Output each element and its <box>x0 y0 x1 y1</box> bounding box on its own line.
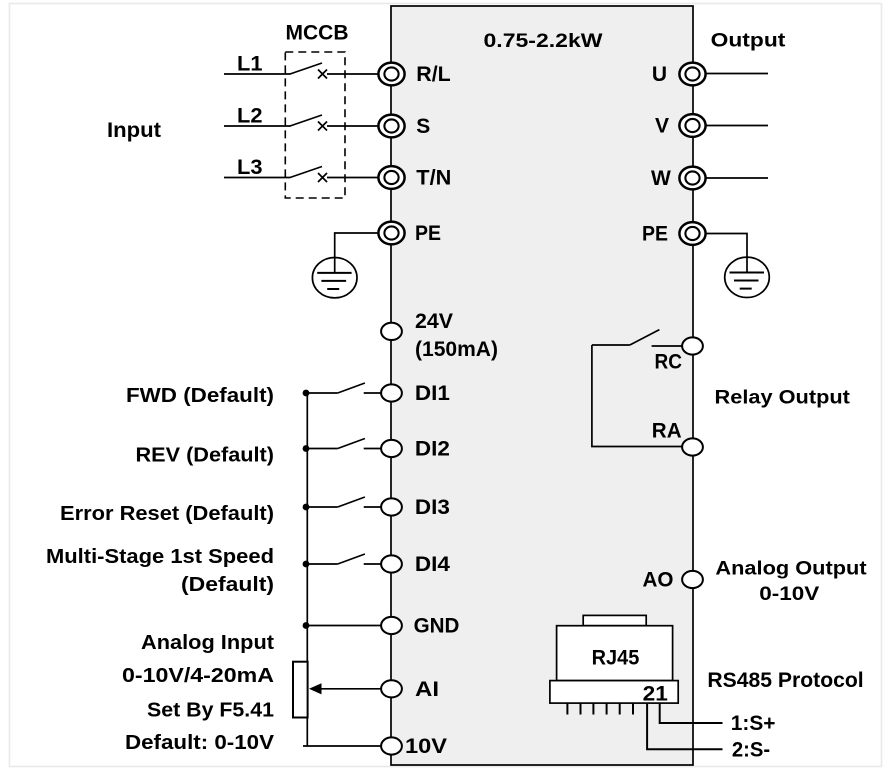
svg-text:(150mA): (150mA) <box>415 338 498 361</box>
switch DI2 <box>306 439 381 449</box>
connector RJ45 main body <box>557 626 673 681</box>
wire L3 input <box>224 177 291 179</box>
svg-text:V: V <box>655 115 669 138</box>
breaker pole L1 blade <box>290 63 322 74</box>
connector RJ45 top tab <box>583 615 646 625</box>
terminal DI3 <box>381 498 402 515</box>
ground right <box>725 257 770 297</box>
svg-text:0-10V/4-20mA: 0-10V/4-20mA <box>122 664 274 687</box>
svg-text:Analog Output: Analog Output <box>715 558 867 580</box>
svg-text:10V: 10V <box>405 735 447 758</box>
inverter body U1 <box>391 6 693 765</box>
svg-text:L1: L1 <box>237 53 263 76</box>
connector RJ45 pins <box>567 703 633 714</box>
terminal 10V <box>381 737 402 754</box>
terminal AO <box>682 571 703 588</box>
wire U output <box>706 73 769 75</box>
svg-text:T/N: T/N <box>416 167 451 190</box>
relay switch K1 <box>592 330 683 346</box>
svg-text:GND: GND <box>414 615 460 638</box>
wire AI wiper arrow <box>318 688 381 690</box>
svg-text:24V: 24V <box>415 310 453 333</box>
svg-text:DI3: DI3 <box>415 496 450 519</box>
terminal T/N <box>378 166 404 189</box>
svg-text:RA: RA <box>652 420 682 443</box>
svg-text:R/L: R/L <box>416 63 451 86</box>
wire L1 input <box>224 73 291 75</box>
svg-text:AI: AI <box>415 678 439 701</box>
node DI4 junction <box>303 561 310 568</box>
svg-text:(Default): (Default) <box>181 573 274 596</box>
svg-text:DI4: DI4 <box>415 553 450 576</box>
svg-text:W: W <box>651 167 671 190</box>
svg-text:Analog Input: Analog Input <box>141 631 274 654</box>
wire GND <box>306 625 381 627</box>
breaker MCCB box <box>285 52 345 198</box>
svg-text:2:S-: 2:S- <box>732 738 770 761</box>
terminal PE left <box>378 222 404 245</box>
terminal RA <box>682 438 703 455</box>
wire pin1 S+ <box>660 703 723 723</box>
wire 10V <box>303 745 381 747</box>
potentiometer RP <box>293 662 308 718</box>
breaker pole L2 blade <box>290 115 322 126</box>
svg-text:RJ45: RJ45 <box>592 647 640 670</box>
svg-text:RS485 Protocol: RS485 Protocol <box>707 669 863 692</box>
node DI1 junction <box>303 390 310 397</box>
terminal DI2 <box>381 440 402 457</box>
svg-text:PE: PE <box>415 222 441 245</box>
terminal AI <box>381 680 402 697</box>
wire DI common bus <box>306 393 308 746</box>
wire RC to RA <box>592 345 682 447</box>
node DI3 junction <box>303 504 310 511</box>
terminal DI1 <box>381 384 402 401</box>
wire PE right to ground <box>706 234 748 273</box>
terminal RC <box>682 337 703 354</box>
ground left <box>312 258 357 298</box>
terminal S <box>378 115 404 138</box>
svg-text:21: 21 <box>643 683 669 706</box>
wire L2 input <box>224 125 291 127</box>
svg-text:Multi-Stage 1st Speed: Multi-Stage 1st Speed <box>46 545 274 568</box>
svg-text:Set By F5.41: Set By F5.41 <box>147 699 274 722</box>
connector RJ45 base <box>550 681 678 704</box>
terminal GND <box>381 617 402 634</box>
terminal V <box>679 114 705 137</box>
wire L1 to R/L <box>327 73 379 75</box>
svg-text:AO: AO <box>643 569 674 592</box>
terminal 24V <box>381 323 402 340</box>
svg-text:Default: 0-10V: Default: 0-10V <box>125 731 274 754</box>
wire W output <box>706 177 769 179</box>
svg-text:DI2: DI2 <box>415 438 450 461</box>
wire L3 to T/N <box>327 177 379 179</box>
terminal R/L <box>378 63 404 86</box>
svg-text:Input: Input <box>107 119 161 142</box>
svg-text:Output: Output <box>711 29 786 51</box>
terminal DI4 <box>381 555 402 572</box>
svg-text:RC: RC <box>655 351 683 374</box>
svg-text:MCCB: MCCB <box>286 22 349 45</box>
switch DI1 <box>306 383 381 393</box>
svg-text:REV (Default): REV (Default) <box>136 444 275 467</box>
terminal PE right <box>679 222 705 245</box>
wire V output <box>706 125 769 127</box>
breaker pole L3 blade <box>290 167 322 178</box>
breaker pole L1 x-mark <box>318 70 327 79</box>
svg-text:Relay Output: Relay Output <box>715 387 851 409</box>
svg-text:PE: PE <box>642 223 668 246</box>
terminal W <box>679 167 705 190</box>
svg-text:0.75-2.2kW: 0.75-2.2kW <box>484 30 604 52</box>
node GND junction <box>303 622 310 629</box>
svg-text:0-10V: 0-10V <box>759 583 819 605</box>
svg-text:U: U <box>652 63 667 86</box>
svg-text:FWD (Default): FWD (Default) <box>126 384 274 407</box>
node DI2 junction <box>303 445 310 452</box>
switch DI3 <box>306 497 381 507</box>
svg-text:S: S <box>416 115 430 138</box>
svg-text:DI1: DI1 <box>415 382 450 405</box>
wire pin2 S- <box>647 703 722 749</box>
wire L2 to S <box>327 125 379 127</box>
switch DI4 <box>306 554 381 564</box>
breaker pole L2 x-mark <box>318 122 327 131</box>
wire PE left to ground <box>335 233 379 273</box>
terminal U <box>679 63 705 86</box>
svg-text:1:S+: 1:S+ <box>731 712 776 735</box>
svg-text:L3: L3 <box>237 156 263 179</box>
breaker pole L3 x-mark <box>318 173 327 182</box>
svg-text:Error Reset (Default): Error Reset (Default) <box>60 502 274 525</box>
svg-text:L2: L2 <box>237 105 263 128</box>
